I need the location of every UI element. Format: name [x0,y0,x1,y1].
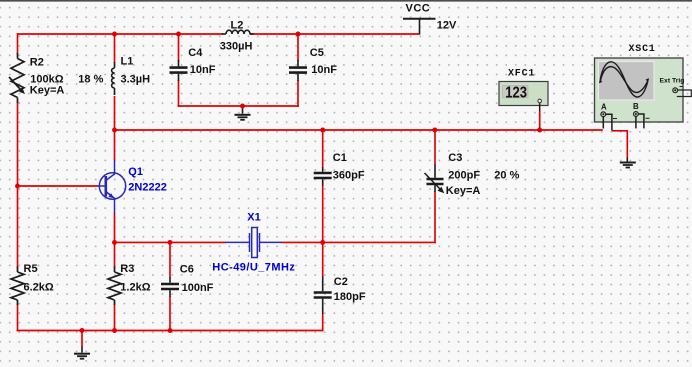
svg-text:Ext Trig: Ext Trig [660,78,685,85]
junction: L1 top / VCC rail [112,32,117,37]
junction: ground tap C4-C5 loop [240,104,245,109]
label C3 [446,152,520,197]
label VCC [406,3,458,32]
svg-text:Key=A: Key=A [446,185,481,197]
junction: C5 top / VCC rail [296,32,301,37]
capacitor C2 [314,277,332,315]
wire: C1 branch [322,130,324,243]
svg-text:20 %: 20 % [494,169,519,181]
svg-text:3.3µH: 3.3µH [121,73,151,85]
label R5 [24,263,54,294]
svg-text:VCC: VCC [406,3,431,15]
svg-text:X1: X1 [247,211,260,223]
junction: R3 bottom on bottom bus [112,328,117,333]
label XFC1 [508,68,535,79]
svg-text:XFC1: XFC1 [508,68,535,79]
svg-text:HC-49/U_7MHz: HC-49/U_7MHz [212,261,295,273]
label R2 [30,56,104,96]
svg-text:A: A [601,102,607,111]
label Q1 [128,166,167,194]
resistor R2 (potentiometer) [9,53,25,103]
label XSC1 [629,44,656,55]
wire: R5 top from base junction [0,0,1,1]
inductor L2 [222,30,254,34]
svg-text:12V: 12V [437,20,457,32]
instrument XFC1 frequency counter [499,82,548,112]
top window border [0,0,692,2]
capacitor C6 [161,277,179,297]
wire: left vertical net [17,33,19,331]
wire: top VCC rail [18,33,420,35]
resistor R5 [11,267,24,306]
svg-text:200pF: 200pF [448,169,480,181]
svg-text:Key=A: Key=A [30,84,65,96]
junction: L1 bottom / collector bus [112,128,117,133]
ground (scope) [620,158,636,168]
wire: C4/C5 bottom loop [178,105,299,107]
label L1 [121,55,151,85]
label C4 [188,47,215,76]
crystal X1 [226,228,283,258]
svg-text:18 %: 18 % [78,73,103,85]
svg-text:1.2kΩ: 1.2kΩ [120,281,150,293]
svg-text:10nF: 10nF [190,64,216,76]
capacitor C5 [289,60,307,81]
junction: C6 top on emitter node [168,240,173,245]
svg-text:R2: R2 [30,56,44,68]
svg-text:123: 123 [505,84,527,101]
wire: C6 branch [169,242,171,332]
label C2 [334,276,366,303]
svg-text:B: B [633,102,639,111]
svg-text:R3: R3 [120,263,134,275]
junction: R2 bottom / Q1 base [15,184,20,189]
svg-text:10nF: 10nF [311,64,337,76]
wire: bottom ground bus [17,330,323,332]
wire: L1 branch [114,33,116,131]
capacitor C1 [314,167,332,186]
wire: Q1 emitter [114,213,116,243]
svg-text:360pF: 360pF [333,169,365,181]
svg-text:2N2222: 2N2222 [128,181,167,193]
label C1 [333,152,365,182]
wire: C5 branch [297,33,299,107]
junction: Q1 emitter node [112,240,117,245]
capacitor C3 (variable) [425,165,445,194]
wire: Q1 collector [114,129,116,160]
junction: C6 bottom on bottom bus [168,328,173,333]
svg-text:L1: L1 [121,55,134,67]
wire: C4 branch [178,33,180,107]
svg-text:C3: C3 [448,152,462,164]
svg-text:L2: L2 [231,19,244,31]
capacitor C4 [170,60,188,81]
resistor R3 [108,267,121,306]
svg-text:XSC1: XSC1 [629,44,656,55]
wire: Q1 base [18,185,99,187]
wire: XFC1 drop [539,111,541,131]
instrument XSC1 oscilloscope [595,58,692,131]
svg-text:180pF: 180pF [334,291,366,303]
svg-text:C2: C2 [334,276,348,288]
wire: R3 bottom lead [114,242,116,331]
svg-text:C1: C1 [333,152,347,164]
label R3 [120,263,150,294]
junction: C4 top / VCC rail [176,32,181,37]
svg-text:100nF: 100nF [182,282,214,294]
label X1 [212,211,295,273]
junction: C1-C2 mid node [320,240,325,245]
inductor L1 [112,62,115,95]
power VCC [403,19,436,35]
svg-text:C6: C6 [180,263,194,275]
transistor Q1 2N2222 [98,160,126,214]
ground (C4/C5 tap) [235,106,251,120]
label L2 [220,19,253,52]
wire: mid bus y130 [115,130,628,159]
junction: ground tap bottom bus [80,328,85,333]
junction: XFC1 drop on bus [537,128,542,133]
svg-text:C5: C5 [310,47,324,59]
svg-text:R5: R5 [24,263,38,275]
svg-text:6.2kΩ: 6.2kΩ [24,281,54,293]
wire: ground stub on bottom bus [81,330,83,347]
svg-text:Q1: Q1 [128,166,143,178]
junction: C3 top on bus [432,128,437,133]
svg-text:C4: C4 [188,47,203,59]
wire: emitter node horizontal [115,192,436,244]
ground (bottom bus) [74,347,90,359]
junction: C1 top on bus [320,128,325,133]
wire: C3 branch top [434,129,436,165]
label C6 [180,263,214,294]
label C5 [310,47,337,76]
svg-text:330µH: 330µH [220,40,253,52]
wire: C2 branch [322,242,324,332]
